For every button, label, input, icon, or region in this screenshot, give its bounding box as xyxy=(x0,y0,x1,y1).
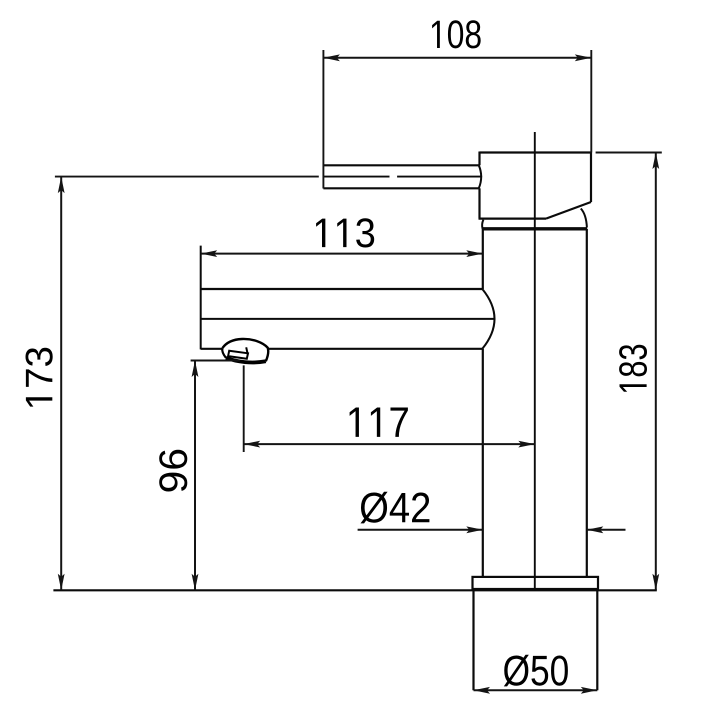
collar right arc below chamfer xyxy=(581,209,587,228)
dim 173 top arrow xyxy=(58,177,65,194)
cartridge head left edge upper xyxy=(478,152,480,166)
dim text 183 xyxy=(619,345,647,392)
dim 173 extension line (lever axis, long) xyxy=(55,176,319,178)
dim 117 extension line (aerator outlet) xyxy=(243,365,245,452)
dim 108 right arrow xyxy=(575,54,592,61)
faucet handle lever bottom edge xyxy=(323,187,478,189)
cartridge head bottom edge xyxy=(479,218,547,220)
lever centerline dash segment 2 xyxy=(397,176,482,178)
dim text 96 xyxy=(159,450,187,492)
faucet handle lever top edge xyxy=(323,164,478,166)
aerator left side edge xyxy=(222,348,226,358)
dim 113 left arrow xyxy=(201,250,218,257)
dim 96 extension line (aerator bottom) xyxy=(191,360,240,362)
dim 117 line xyxy=(244,443,535,445)
dim D50 right arrow xyxy=(581,687,598,694)
spout bottom edge xyxy=(201,348,483,350)
dim text 173 xyxy=(25,348,52,407)
dim 108 line xyxy=(323,57,591,59)
dim 113 right arrow xyxy=(466,250,483,257)
dim D42 line left part xyxy=(358,529,483,531)
dim text 108 xyxy=(432,20,481,48)
body column left edge lower segment xyxy=(482,349,484,577)
lever centerline dash segment 1 (inside lever) xyxy=(323,176,389,178)
spout top edge xyxy=(201,288,483,290)
collar ring thick line (top of column) xyxy=(482,227,587,230)
dim text 113 xyxy=(316,218,374,247)
dim 96 top arrow xyxy=(192,361,199,378)
dim 96 line xyxy=(194,361,196,591)
aerator outlet tilted rectangle xyxy=(228,351,248,359)
dim 96 bottom arrow xyxy=(192,574,199,591)
base body left edge xyxy=(472,590,474,690)
spout left end edge + 113 extension line xyxy=(200,246,202,350)
dim D42 line right part xyxy=(587,529,626,531)
body column right edge xyxy=(586,229,588,577)
dim text D50 xyxy=(504,655,568,687)
aerator thick bottom edge xyxy=(226,358,266,363)
collar left arc below head xyxy=(482,220,483,229)
cartridge head chamfer bottom-right xyxy=(546,202,591,219)
aerator pin tick xyxy=(246,347,248,354)
handle lever end cap arc at head xyxy=(479,165,481,188)
dim D42 right arrow (pointing left at column) xyxy=(587,526,604,533)
dim text D42 xyxy=(361,492,430,524)
dim 183 top arrow xyxy=(652,153,659,170)
base flange outline xyxy=(473,577,599,589)
dim 113 line xyxy=(201,253,483,255)
aerator housing dome (white filled, occludes spout bottom line) xyxy=(222,339,268,363)
vertical centerline of body xyxy=(534,132,536,590)
dim 108 extension line left (and lever left end) xyxy=(322,50,324,189)
dim D42 left arrow (pointing right at column) xyxy=(466,526,483,533)
cartridge head top edge xyxy=(480,151,592,153)
dim 183 extension line (head top) xyxy=(596,152,662,154)
counter/ground line xyxy=(53,589,656,591)
cartridge head left edge lower xyxy=(478,188,480,218)
dim 117 right arrow xyxy=(518,441,535,448)
dim 173 line xyxy=(60,177,62,591)
aerator dome outline xyxy=(222,339,268,361)
dim D50 left arrow xyxy=(474,687,491,694)
body column left edge upper segment xyxy=(482,229,484,289)
dim 108 left arrow xyxy=(323,54,340,61)
dim 183 line xyxy=(655,153,657,591)
spout middle line xyxy=(201,318,495,320)
cartridge head right edge xyxy=(590,153,592,203)
spout to column joint arc xyxy=(482,289,494,349)
dim 183 bottom arrow xyxy=(652,574,659,591)
dim 117 left arrow xyxy=(244,441,261,448)
dim 108 extension line right xyxy=(590,50,592,153)
dim text 117 xyxy=(350,407,408,436)
dim D50 line xyxy=(474,689,598,691)
dim 173 bottom arrow xyxy=(58,574,65,591)
base body right edge xyxy=(596,590,598,690)
